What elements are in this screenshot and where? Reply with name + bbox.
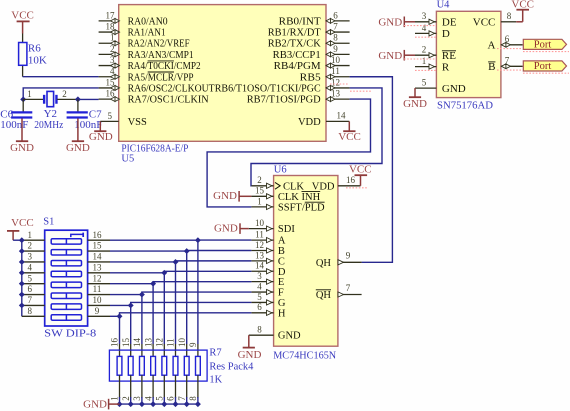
svg-text:DE: DE bbox=[442, 17, 457, 29]
svg-text:A: A bbox=[278, 236, 286, 247]
R7 resistor element 6 bbox=[173, 356, 178, 375]
svg-text:15: 15 bbox=[255, 186, 265, 196]
svg-text:CLK INH: CLK INH bbox=[278, 192, 321, 203]
U6 pin 2 (CLK) bbox=[251, 185, 273, 187]
U4 pin 1 (R) bbox=[415, 66, 436, 68]
svg-text:RA4/T0CKI/CMP2: RA4/T0CKI/CMP2 bbox=[128, 61, 201, 72]
node bus junction 4 bbox=[150, 401, 156, 407]
svg-text:5: 5 bbox=[108, 111, 113, 121]
S1 pin 11 bbox=[88, 294, 110, 296]
svg-text:VCC: VCC bbox=[511, 0, 534, 10]
svg-text:RB2/TX/CK: RB2/TX/CK bbox=[268, 39, 321, 50]
svg-text:4: 4 bbox=[422, 23, 427, 33]
svg-text:MC74HC165N: MC74HC165N bbox=[273, 350, 336, 361]
svg-text:RB3/CCP1: RB3/CCP1 bbox=[273, 50, 321, 61]
svg-text:5: 5 bbox=[257, 292, 262, 302]
node column 14 junction bbox=[173, 259, 179, 265]
R7 resistor element 2 bbox=[128, 356, 133, 375]
wire C7 to ground bbox=[77, 119, 79, 141]
node bus junction 8 bbox=[195, 401, 201, 407]
svg-text:14: 14 bbox=[255, 261, 265, 271]
wire column 9 drop to R7 bbox=[119, 316, 121, 344]
error squiggle under U4 pin 4 bbox=[415, 36, 436, 38]
svg-text:5: 5 bbox=[155, 396, 165, 401]
svg-text:1: 1 bbox=[27, 89, 32, 99]
svg-text:8: 8 bbox=[188, 396, 198, 401]
S1 pin 4 bbox=[22, 272, 45, 274]
svg-text:11: 11 bbox=[166, 338, 176, 347]
node column 16 junction bbox=[195, 237, 201, 243]
port Port (B) bbox=[523, 61, 566, 71]
svg-text:2: 2 bbox=[121, 396, 131, 401]
wire R7 element 2 to bus bbox=[130, 397, 132, 404]
svg-text:2: 2 bbox=[62, 89, 67, 99]
svg-text:6: 6 bbox=[166, 396, 176, 401]
R7 pin 1 stub bbox=[119, 375, 121, 398]
wire column 10 drop to R7 bbox=[130, 305, 132, 344]
U6 pin 15 (CLK INH) bbox=[251, 195, 273, 197]
wire R7 element 8 to bus bbox=[197, 397, 199, 404]
wire column to U6 H bbox=[120, 313, 252, 316]
U5 pin 16 (RA7) bbox=[99, 98, 119, 100]
S1 pin 1 bbox=[22, 239, 45, 241]
U6 pin 11 (A) bbox=[251, 239, 273, 241]
U5 pin 13 (RB7) bbox=[326, 98, 350, 100]
U4 pin 3 (DE) bbox=[415, 21, 436, 23]
svg-text:13: 13 bbox=[143, 338, 153, 348]
svg-text:VCC: VCC bbox=[473, 17, 496, 29]
wire RB7/PGD to U6 SSFT/PLD bbox=[207, 99, 370, 207]
svg-text:RB4/PGM: RB4/PGM bbox=[274, 61, 322, 72]
ground below C7 bbox=[72, 140, 84, 142]
node bus junction 2 bbox=[128, 401, 134, 407]
svg-text:VDD: VDD bbox=[312, 181, 335, 192]
R7 resistor element 1 bbox=[117, 356, 122, 375]
S1 pin 3 bbox=[22, 261, 45, 263]
S1 switch 1 lever bbox=[71, 234, 83, 237]
capacitor C7 bbox=[67, 111, 88, 113]
R7 pin 2 stub bbox=[130, 375, 132, 398]
S1 pin 6 bbox=[22, 294, 45, 296]
svg-text:RB5: RB5 bbox=[300, 72, 321, 83]
node bus junction 7 bbox=[184, 401, 190, 407]
svg-text:RA7/OSC1/CLKIN: RA7/OSC1/CLKIN bbox=[128, 95, 209, 106]
U6 pin 9 (QH) bbox=[338, 261, 362, 263]
U5 pin 4 (RA5) bbox=[99, 76, 119, 78]
resistor pack R7 body bbox=[109, 350, 207, 381]
svg-text:9: 9 bbox=[333, 44, 338, 54]
ground below C6 bbox=[16, 140, 28, 142]
svg-text:GND: GND bbox=[378, 50, 402, 62]
power VCC at U4 pin 8 bbox=[516, 21, 523, 23]
U6 pin 8 (GND) bbox=[249, 334, 274, 336]
R7 pin 9 stub bbox=[197, 344, 199, 356]
wire R7 element 6 to bus bbox=[175, 397, 177, 404]
S1 pin 9 bbox=[88, 315, 110, 317]
wire junction to RA7/OSC1 bbox=[78, 98, 99, 100]
wire column 15 drop to R7 bbox=[186, 251, 188, 344]
wire S1 row 16 to column bbox=[110, 239, 198, 241]
svg-text:U4: U4 bbox=[437, 0, 451, 11]
svg-text:R7: R7 bbox=[209, 348, 221, 359]
node column 13 junction bbox=[161, 270, 167, 276]
R7 pin 15 stub bbox=[130, 344, 132, 356]
svg-text:S1: S1 bbox=[43, 216, 54, 227]
svg-text:SW DIP-8: SW DIP-8 bbox=[44, 329, 96, 340]
U6 pin 5 (G) bbox=[251, 301, 273, 303]
svg-text:A: A bbox=[487, 40, 495, 52]
wire RB5 to U6 QH bbox=[350, 77, 393, 263]
wire S1 row 13 to column bbox=[110, 272, 164, 274]
R7 pin 11 stub bbox=[175, 344, 177, 356]
node bus junction 3 bbox=[139, 401, 145, 407]
svg-text:10: 10 bbox=[255, 218, 265, 228]
svg-text:RE: RE bbox=[442, 50, 456, 62]
microcontroller U5 PIC16F628A body bbox=[119, 5, 326, 142]
wire column to U6 B bbox=[187, 249, 252, 252]
svg-text:2: 2 bbox=[422, 45, 427, 55]
wire C6 to ground bbox=[21, 119, 23, 141]
svg-text:F: F bbox=[278, 288, 284, 299]
svg-text:1: 1 bbox=[257, 196, 262, 206]
U5 pin 8 (RB2) bbox=[326, 42, 350, 44]
svg-text:12: 12 bbox=[331, 77, 340, 87]
svg-text:RB0/INT: RB0/INT bbox=[279, 16, 322, 27]
S1 pin 10 bbox=[88, 304, 110, 306]
U6 pin 14 (D) bbox=[251, 270, 273, 272]
U6 pin 13 (C) bbox=[251, 260, 273, 262]
wire column 13 drop to R7 bbox=[163, 273, 165, 344]
svg-text:VCC: VCC bbox=[11, 10, 34, 22]
wire R7 element 4 to bus bbox=[152, 397, 154, 404]
svg-text:10: 10 bbox=[331, 55, 341, 65]
svg-text:7: 7 bbox=[28, 295, 33, 305]
svg-text:RA5/MCLR/VPP: RA5/MCLR/VPP bbox=[128, 72, 194, 83]
S1 pin 14 bbox=[88, 261, 110, 263]
svg-text:4: 4 bbox=[257, 281, 262, 291]
svg-text:CLK: CLK bbox=[283, 181, 304, 192]
svg-text:G: G bbox=[278, 298, 286, 309]
svg-text:5: 5 bbox=[422, 78, 427, 88]
svg-text:GND: GND bbox=[378, 16, 402, 28]
svg-text:7: 7 bbox=[346, 283, 351, 293]
wire column to U6 F bbox=[142, 292, 252, 295]
wire junction down to C6 bbox=[22, 99, 24, 111]
R7 pin 16 stub bbox=[119, 344, 121, 356]
R7 pin 13 stub bbox=[152, 344, 154, 356]
node crystal pin2 junction bbox=[75, 96, 81, 102]
svg-text:3: 3 bbox=[257, 271, 262, 281]
svg-text:C: C bbox=[278, 256, 285, 267]
svg-text:15: 15 bbox=[121, 338, 131, 348]
wire S1 row 11 to column bbox=[110, 294, 142, 296]
U6 pin 16 (VDD) bbox=[338, 185, 361, 187]
wire RA6 to crystal bbox=[23, 88, 98, 100]
svg-text:VCC: VCC bbox=[349, 164, 372, 176]
svg-text:11: 11 bbox=[255, 230, 264, 240]
ground at U6 pin 8 bbox=[248, 335, 250, 347]
S1 pin 12 bbox=[88, 283, 110, 285]
svg-text:1: 1 bbox=[422, 56, 427, 66]
svg-text:8: 8 bbox=[333, 33, 338, 43]
svg-text:B: B bbox=[278, 246, 285, 257]
svg-text:U5: U5 bbox=[121, 154, 134, 165]
svg-text:3: 3 bbox=[422, 11, 427, 21]
svg-text:7: 7 bbox=[177, 396, 187, 401]
wire column 12 drop to R7 bbox=[152, 284, 154, 344]
S1 pin 7 bbox=[22, 304, 45, 306]
svg-text:12: 12 bbox=[255, 240, 264, 250]
R7 resistor element 3 bbox=[140, 356, 145, 375]
wire column 14 drop to R7 bbox=[175, 262, 177, 344]
node column 10 junction bbox=[128, 302, 134, 308]
svg-text:8: 8 bbox=[507, 11, 512, 21]
svg-text:14: 14 bbox=[132, 338, 142, 348]
S1 switch element 2 bbox=[51, 250, 81, 255]
svg-text:GND: GND bbox=[66, 142, 90, 154]
wire S1 left bus bbox=[21, 240, 23, 316]
power VCC at U5 VDD bbox=[348, 121, 350, 130]
R7 pin 8 stub bbox=[197, 375, 199, 398]
U5 pin 15 (RA6) bbox=[99, 87, 119, 89]
svg-text:GND: GND bbox=[442, 83, 466, 95]
U4 pin 4 (D) bbox=[415, 32, 436, 34]
svg-text:SN75176AD: SN75176AD bbox=[437, 101, 493, 112]
svg-text:VCC: VCC bbox=[338, 131, 361, 143]
svg-text:8: 8 bbox=[28, 306, 33, 316]
U4 pin 2 (RE) bbox=[415, 54, 436, 56]
svg-text:20MHz: 20MHz bbox=[34, 119, 63, 131]
wire column 11 drop to R7 bbox=[141, 295, 143, 344]
svg-text:RA0/AN0: RA0/AN0 bbox=[128, 16, 168, 27]
svg-text:9: 9 bbox=[346, 251, 351, 261]
svg-text:8: 8 bbox=[257, 325, 262, 335]
svg-text:GND: GND bbox=[213, 190, 237, 202]
U5 pin 14 (VDD) bbox=[326, 120, 349, 122]
svg-text:10: 10 bbox=[93, 295, 103, 305]
port Port (A) bbox=[523, 39, 566, 49]
svg-text:3: 3 bbox=[28, 252, 33, 262]
wire column to U6 A bbox=[198, 239, 252, 241]
svg-text:H: H bbox=[278, 308, 286, 319]
R7 resistor element 4 bbox=[151, 356, 156, 375]
U5 pin 6 (RB0) bbox=[326, 20, 350, 22]
S1 pin 16 bbox=[88, 239, 110, 241]
svg-text:Res Pack4: Res Pack4 bbox=[209, 362, 254, 373]
node column 15 junction bbox=[184, 248, 190, 254]
svg-text:16: 16 bbox=[346, 175, 356, 185]
wire R7 ground bus bbox=[120, 403, 198, 405]
svg-text:VDD: VDD bbox=[298, 117, 321, 128]
svg-text:100nF: 100nF bbox=[0, 119, 28, 131]
S1 switch element 8 bbox=[51, 315, 81, 320]
R7 resistor element 8 bbox=[196, 356, 201, 375]
svg-text:RA6/OSC2/CLKOUT: RA6/OSC2/CLKOUT bbox=[128, 83, 216, 94]
svg-text:11: 11 bbox=[93, 284, 102, 294]
wire column 16 drop to R7 bbox=[197, 240, 199, 344]
U5 pin 9 (RB3) bbox=[326, 53, 350, 55]
svg-text:4: 4 bbox=[143, 396, 153, 401]
S1 switch element 3 bbox=[51, 260, 81, 265]
node bus junction 1 bbox=[117, 401, 123, 407]
node bus junction 5 bbox=[161, 401, 167, 407]
wire R7 element 7 to bus bbox=[186, 397, 188, 404]
svg-text:GND: GND bbox=[10, 142, 34, 154]
svg-text:7: 7 bbox=[333, 21, 338, 31]
crystal Y2 bbox=[43, 95, 45, 103]
node bus junction 6 bbox=[173, 401, 179, 407]
svg-text:13: 13 bbox=[255, 250, 265, 260]
svg-text:SSFT/PLD: SSFT/PLD bbox=[278, 202, 325, 213]
svg-text:9: 9 bbox=[95, 306, 100, 316]
R7 pin 12 stub bbox=[163, 344, 165, 356]
svg-text:2: 2 bbox=[28, 241, 33, 251]
wire S1 row 12 to column bbox=[110, 283, 153, 285]
S1 pin 15 bbox=[88, 250, 110, 252]
svg-text:RB6/T1OSO/T1CKI/PGC: RB6/T1OSO/T1CKI/PGC bbox=[215, 83, 321, 94]
S1 pin 5 bbox=[22, 283, 45, 285]
svg-text:13: 13 bbox=[93, 262, 103, 272]
svg-text:6: 6 bbox=[28, 284, 33, 294]
U5 pin 11 (RB5) bbox=[326, 76, 350, 78]
svg-text:D: D bbox=[442, 28, 450, 40]
S1 switch element 6 bbox=[51, 293, 81, 298]
svg-text:RB1/RX/DT: RB1/RX/DT bbox=[268, 28, 322, 39]
svg-text:1K: 1K bbox=[209, 375, 222, 386]
svg-text:R6: R6 bbox=[28, 43, 41, 55]
U6 pin 4 (F) bbox=[251, 291, 273, 293]
svg-text:GND: GND bbox=[89, 131, 113, 143]
power VCC at U6 VDD bbox=[360, 175, 362, 186]
U4 pin 5 (GND) bbox=[415, 87, 436, 89]
svg-text:GND: GND bbox=[403, 98, 427, 110]
S1 switch element 7 bbox=[51, 304, 81, 309]
wire R7 element 5 to bus bbox=[163, 397, 165, 404]
R7 pin 7 stub bbox=[186, 375, 188, 398]
R7 pin 14 stub bbox=[141, 344, 143, 356]
U6 pin 10 (SDI) bbox=[249, 228, 274, 230]
svg-text:12: 12 bbox=[93, 273, 102, 283]
U4 pin 7 (B) bbox=[501, 65, 523, 67]
U5 pin 18 (RA1) bbox=[99, 31, 119, 33]
svg-text:RA1/AN1: RA1/AN1 bbox=[128, 28, 166, 39]
svg-text:9: 9 bbox=[188, 342, 198, 347]
crystal Y2 pin 1 bbox=[23, 98, 43, 100]
svg-text:E: E bbox=[278, 277, 284, 288]
U5 pin 12 (RB6) bbox=[326, 87, 350, 89]
svg-text:QH: QH bbox=[316, 290, 332, 301]
svg-text:RB7/T1OSI/PGD: RB7/T1OSI/PGD bbox=[247, 95, 321, 106]
S1 switch element 4 bbox=[51, 271, 81, 276]
svg-text:6: 6 bbox=[333, 10, 338, 20]
node column 11 junction bbox=[139, 292, 145, 298]
svg-text:11: 11 bbox=[331, 66, 340, 76]
U5 pin 7 (RB1) bbox=[326, 31, 350, 33]
svg-text:5: 5 bbox=[28, 273, 33, 283]
S1 pin 2 bbox=[22, 250, 45, 252]
svg-text:RA3/AN3/CMP1: RA3/AN3/CMP1 bbox=[128, 50, 194, 61]
capacitor C6 bbox=[11, 111, 32, 113]
svg-text:14: 14 bbox=[93, 252, 103, 262]
S1 pin 8 bbox=[22, 315, 45, 317]
ground at U5 VSS bbox=[99, 121, 101, 130]
R7 resistor element 7 bbox=[184, 356, 189, 375]
U4 pin 6 (A) bbox=[501, 44, 523, 46]
svg-text:RA2/AN2/VREF: RA2/AN2/VREF bbox=[128, 39, 190, 50]
svg-text:GND: GND bbox=[214, 223, 238, 235]
R7 pin 4 stub bbox=[152, 375, 154, 398]
S1 pin 13 bbox=[88, 272, 110, 274]
svg-text:12: 12 bbox=[155, 338, 165, 347]
svg-text:16: 16 bbox=[110, 338, 120, 348]
svg-text:R: R bbox=[442, 61, 450, 73]
svg-text:15: 15 bbox=[93, 241, 103, 251]
ground at U4 pin 5 bbox=[414, 88, 416, 97]
svg-text:2: 2 bbox=[257, 175, 262, 185]
node crystal pin1 junction bbox=[20, 96, 26, 102]
wire S1 row 14 to column bbox=[110, 261, 176, 263]
R7 pin 10 stub bbox=[186, 344, 188, 356]
wire column to U6 G bbox=[131, 302, 252, 305]
wire R7 element 3 to bus bbox=[141, 397, 143, 404]
error squiggle under RB6 wire bbox=[350, 90, 372, 92]
U6 pin 7 (QH-bar) bbox=[338, 294, 362, 296]
U4 pin 8 (VCC) bbox=[501, 21, 516, 23]
svg-text:14: 14 bbox=[337, 110, 347, 120]
R7 resistor element 5 bbox=[162, 356, 167, 375]
wire junction down to C7 bbox=[77, 99, 79, 111]
R7 pin 6 stub bbox=[175, 375, 177, 398]
svg-text:6: 6 bbox=[257, 302, 262, 312]
wire S1 row 15 to column bbox=[110, 250, 187, 252]
svg-text:B: B bbox=[488, 61, 495, 73]
resistor R6 pin leads bbox=[22, 34, 24, 43]
U6 pin 12 (B) bbox=[251, 249, 273, 251]
svg-text:U6: U6 bbox=[274, 164, 287, 175]
svg-text:3: 3 bbox=[132, 396, 142, 401]
wire R6 to RA5/MCLR bbox=[23, 76, 99, 78]
svg-text:10K: 10K bbox=[28, 55, 47, 67]
svg-text:GND: GND bbox=[83, 399, 107, 411]
svg-text:VCC: VCC bbox=[11, 217, 34, 229]
svg-text:1: 1 bbox=[110, 396, 120, 401]
U6 pin 1 (SSFT/PLD) bbox=[251, 206, 273, 208]
U5 pin 2 (RA3) bbox=[99, 53, 119, 55]
svg-text:13: 13 bbox=[331, 88, 341, 98]
U5 pin 10 (RB4) bbox=[326, 65, 350, 67]
svg-text:GND: GND bbox=[238, 349, 262, 361]
svg-text:Port: Port bbox=[534, 40, 552, 51]
S1 switch element 1 bbox=[51, 239, 81, 244]
U5 pin 3 (RA4) bbox=[99, 65, 119, 67]
wire VCC to S1 pin 1 bbox=[13, 239, 22, 241]
wire column to U6 D bbox=[164, 271, 251, 273]
svg-text:16: 16 bbox=[93, 230, 103, 240]
error squiggle under U4 pin 1 bbox=[415, 69, 436, 71]
svg-text:QH: QH bbox=[316, 258, 332, 269]
U5 pin 17 (RA0) bbox=[99, 20, 119, 22]
node column 12 junction bbox=[150, 281, 156, 287]
U5 pin 5 (VSS) bbox=[100, 120, 118, 122]
wire RB6/PGC to U6 CLK bbox=[251, 88, 382, 186]
R7 pin 3 stub bbox=[141, 375, 143, 398]
crystal Y2 pin 2 bbox=[57, 98, 78, 100]
svg-text:4: 4 bbox=[28, 262, 33, 272]
svg-text:D: D bbox=[278, 267, 286, 278]
wire column to U6 C bbox=[176, 261, 252, 262]
svg-text:SDI: SDI bbox=[278, 224, 295, 235]
svg-text:1: 1 bbox=[28, 230, 33, 240]
